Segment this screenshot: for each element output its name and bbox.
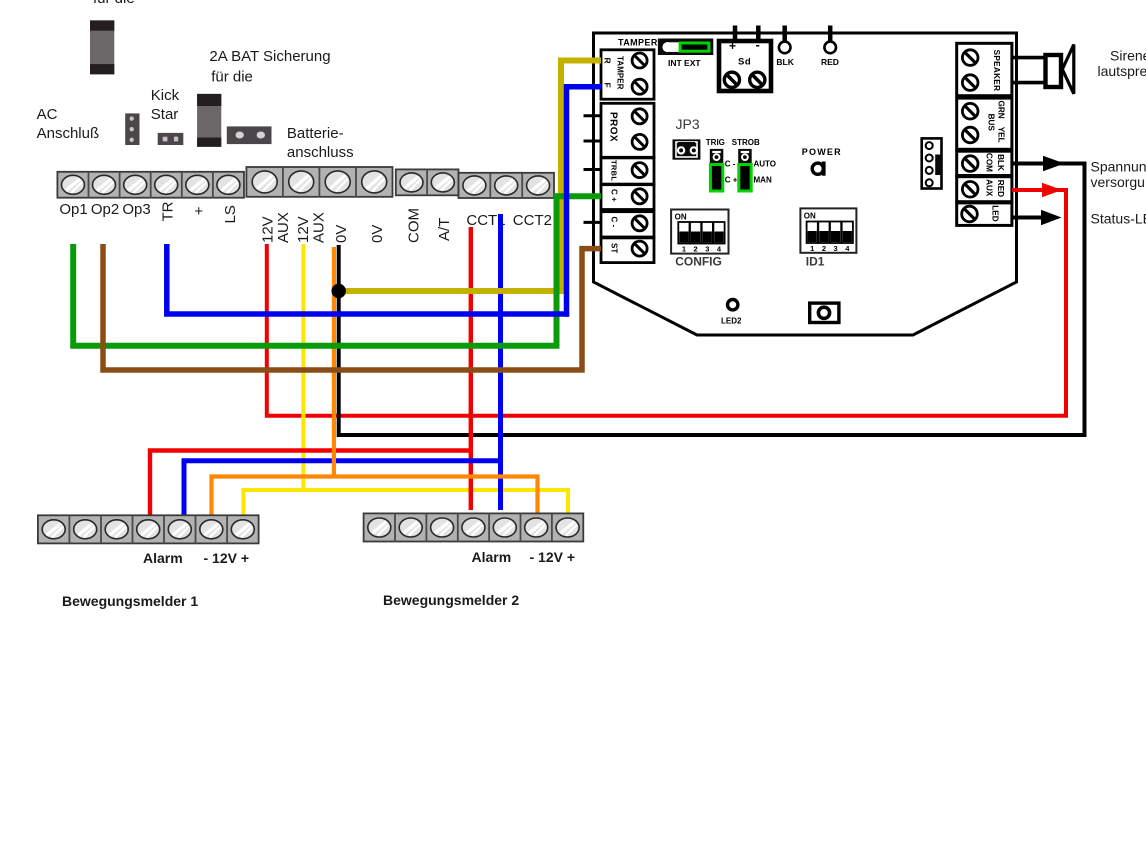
svg-text:Status-LED: Status-LED [1091, 211, 1146, 227]
svg-text:AUX: AUX [275, 212, 292, 243]
wire olive 0V to TAMPER R [344, 61, 601, 292]
svg-text:0V: 0V [333, 225, 350, 243]
pin stub PROX 1 [584, 114, 602, 117]
screw SPEAKER 1 [962, 50, 978, 66]
svg-text:POWER: POWER [802, 147, 842, 157]
svg-text:LED2: LED2 [721, 317, 742, 326]
pin stub BLK [782, 26, 787, 43]
wire red CCT1 to detector alarms [150, 227, 471, 516]
svg-text:Kick: Kick [151, 87, 180, 104]
svg-text:- 12V +: - 12V + [530, 549, 576, 565]
svg-text:AUX: AUX [985, 179, 994, 197]
screw LED [962, 206, 978, 222]
svg-text:LS: LS [222, 205, 239, 223]
svg-text:COM: COM [406, 208, 423, 243]
svg-text:R: R [603, 58, 613, 64]
terminal strip X3 (COM A/T) [396, 169, 459, 195]
screw TAMPER R [632, 53, 647, 68]
wire blue TR to TAMPER F (vertical part) [567, 87, 602, 317]
svg-text:2: 2 [694, 245, 698, 254]
svg-text:Sirenen: Sirenen [1110, 48, 1146, 64]
pin stub RED [828, 26, 833, 43]
terminal strip X1 (Op1 Op2 Op3 TR + LS) [57, 172, 244, 198]
svg-text:Anschluß: Anschluß [37, 125, 100, 142]
svg-text:AC: AC [37, 106, 58, 123]
svg-text:INT EXT: INT EXT [668, 58, 701, 68]
svg-text:1: 1 [682, 245, 686, 254]
siren driver box Sd [719, 41, 771, 91]
svg-text:für die: für die [211, 69, 253, 86]
screw ST [632, 241, 647, 256]
terminal strip X2 battery (12V AUX / 0V) [246, 167, 392, 197]
wire red 12V AUX to AUX RED (long) [267, 190, 1066, 416]
screw PROX 2 [632, 134, 647, 149]
svg-text:Bewegungsmelder 1: Bewegungsmelder 1 [62, 593, 198, 609]
svg-text:AUX: AUX [311, 212, 328, 243]
wire black 0V to COM BLK (long) [339, 164, 1085, 436]
svg-text:YEL: YEL [997, 127, 1006, 143]
terminal box TAMPER R/F [601, 50, 654, 99]
svg-text:versorgung: versorgung [1091, 174, 1146, 190]
pin stub Sd + [733, 26, 738, 42]
svg-text:BLK: BLK [776, 57, 794, 67]
svg-text:TR: TR [160, 201, 177, 221]
svg-text:für die: für die [93, 0, 135, 7]
terminal box ST [601, 238, 654, 263]
svg-text:Op2: Op2 [91, 201, 119, 218]
terminal box C+ [601, 185, 654, 210]
svg-text:Op1: Op1 [59, 201, 87, 218]
svg-text:F: F [603, 83, 613, 88]
pin stub TRBL [584, 168, 602, 171]
svg-text:Star: Star [151, 106, 179, 123]
dip switch CONFIG [671, 210, 728, 254]
jumper header JP3 [673, 139, 701, 159]
power LED D1 [812, 162, 825, 176]
screw Sd - [750, 72, 765, 87]
header 3-pin (AC) [125, 113, 139, 145]
pin stub Sd - [756, 26, 761, 42]
terminal box COM BLK [957, 151, 1012, 175]
svg-text:CONFIG: CONFIG [675, 255, 722, 269]
svg-text:COM: COM [985, 153, 994, 172]
terminal strip motion detector 1 terminals [38, 515, 259, 543]
terminal strip motion detector 2 terminals [364, 513, 584, 541]
screw Sd + [724, 72, 739, 87]
svg-text:2: 2 [822, 244, 826, 253]
junction dot 0V/olive [332, 284, 346, 298]
jumper pin TRIG [710, 149, 724, 164]
svg-text:RED: RED [821, 57, 839, 67]
screw C- [632, 216, 647, 231]
svg-text:Batterie-: Batterie- [287, 125, 344, 142]
svg-text:GRN: GRN [997, 101, 1006, 119]
svg-text:CCT2: CCT2 [513, 212, 552, 229]
screw SPEAKER 2 [962, 75, 978, 91]
terminal box LED [957, 203, 1012, 226]
terminal box AUX RED [957, 177, 1012, 202]
jumper 2-pin (battery) [227, 126, 272, 144]
screw PROX 1 [632, 109, 647, 124]
svg-text:Alarm: Alarm [472, 549, 512, 565]
fuse F1 (AC) [90, 20, 114, 74]
svg-text:3: 3 [834, 244, 838, 253]
svg-text:TAMPER: TAMPER [618, 38, 658, 48]
svg-text:ON: ON [675, 213, 687, 222]
svg-text:SPEAKER: SPEAKER [992, 50, 1001, 92]
svg-text:Alarm: Alarm [143, 550, 183, 566]
svg-text:+: + [194, 203, 203, 220]
screw BUS GRN [962, 103, 978, 119]
svg-text:BLK: BLK [996, 154, 1005, 171]
arrow COM BLK (Spannungsversorgung) [1043, 156, 1065, 171]
dip switch ID1 [800, 208, 856, 253]
wire orange 0V to detectors - [212, 247, 538, 516]
svg-text:C +: C + [610, 189, 619, 202]
speaker wire bottom [1012, 81, 1046, 85]
svg-text:ID1: ID1 [806, 255, 825, 269]
wire blue CCT1 to detector alarms [184, 214, 501, 516]
svg-text:anschluss: anschluss [287, 144, 354, 161]
svg-text:1: 1 [810, 244, 814, 253]
arrow AUX RED [1042, 183, 1062, 197]
fuse F2 (BAT) [197, 94, 221, 147]
svg-text:12V: 12V [260, 216, 277, 243]
svg-text:MAN: MAN [754, 176, 772, 185]
jumper TRIG (green) [710, 165, 722, 192]
screw TAMPER F [632, 79, 647, 94]
wire brown Op2 to ST [103, 244, 601, 370]
svg-text:PROX: PROX [608, 112, 619, 142]
wire green Op1 to C+ [73, 196, 601, 345]
svg-text:ST: ST [610, 243, 619, 253]
svg-text:3: 3 [705, 245, 709, 254]
svg-text:TRIG: TRIG [706, 138, 725, 147]
svg-text:Op3: Op3 [122, 201, 150, 218]
svg-text:12V: 12V [295, 216, 312, 243]
screw BUS YEL [962, 127, 978, 143]
wire terminal BLK [779, 42, 791, 54]
terminal strip X4 (CCT1 CCT2) [459, 173, 555, 198]
pin stub PROX 2 [584, 140, 602, 143]
arrow LED (Status-LED) [1012, 210, 1062, 225]
svg-text:Spannungs: Spannungs [1091, 159, 1146, 175]
terminal box BUS YEL/GRN [957, 98, 1012, 149]
buzzer/opto component [810, 303, 839, 322]
tamper switch connector INT/EXT [658, 39, 713, 56]
svg-text:lautsprech: lautsprech [1098, 63, 1146, 79]
svg-text:RED: RED [996, 180, 1005, 197]
connector header 4-pin [922, 138, 942, 188]
svg-text:Bewegungsmelder 2: Bewegungsmelder 2 [383, 592, 519, 608]
svg-text:Sd: Sd [738, 57, 751, 68]
svg-text:STROB: STROB [732, 138, 760, 147]
svg-text:BUS: BUS [986, 114, 995, 132]
svg-text:TAMPER: TAMPER [616, 56, 625, 90]
wire blue TR to TAMPER F (horizontal part) [167, 244, 569, 314]
svg-text:C -: C - [725, 159, 736, 168]
svg-text:+: + [729, 39, 736, 53]
jumper pin STROB [738, 149, 752, 164]
svg-text:A/T: A/T [436, 218, 453, 241]
svg-text:-: - [756, 37, 760, 52]
speaker wire top [1012, 56, 1046, 60]
svg-text:JP3: JP3 [676, 116, 700, 132]
svg-text:ON: ON [804, 212, 816, 221]
wire terminal RED [824, 42, 836, 54]
terminal box SPEAKER [957, 43, 1012, 95]
svg-text:LED: LED [990, 205, 999, 221]
screw TRBL [632, 163, 647, 178]
svg-text:- 12V +: - 12V + [204, 550, 250, 566]
screw COM BLK [962, 156, 978, 172]
jumper STROB (green) [739, 165, 751, 192]
pin stub C- [584, 221, 602, 224]
loudspeaker symbol [1046, 45, 1074, 94]
wire yellow 12V AUX to detectors + [244, 244, 569, 516]
svg-text:C +: C + [725, 176, 738, 185]
screw AUX RED [962, 182, 978, 198]
terminal box TRBL [601, 158, 654, 184]
control panel board outline [594, 33, 1017, 335]
terminal box C- [601, 212, 654, 237]
terminal box PROX [601, 103, 654, 157]
svg-text:0V: 0V [369, 225, 386, 243]
svg-text:2A BAT Sicherung: 2A BAT Sicherung [209, 48, 330, 65]
screw C+ [632, 189, 647, 204]
svg-text:TRBL: TRBL [610, 160, 619, 181]
LED2 indicator [728, 300, 738, 310]
svg-text:C -: C - [610, 217, 619, 228]
jumper 2-pin (Kick Start) [158, 133, 184, 145]
svg-text:AUTO: AUTO [754, 159, 777, 168]
